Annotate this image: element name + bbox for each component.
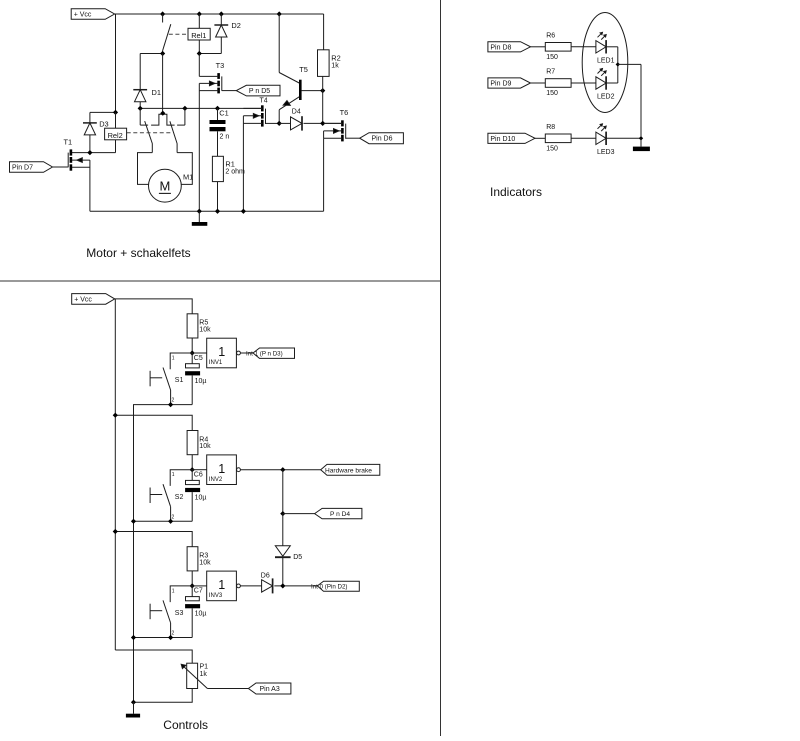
- svg-text:10k: 10k: [199, 443, 211, 450]
- motor loop right wire: [177, 153, 192, 185]
- wire D3 top to Rel2 node: [90, 111, 116, 113]
- node junction P1 bottom rail: [131, 700, 136, 705]
- wire T6 source down to ground rail corner: [323, 138, 325, 211]
- svg-text:T3: T3: [216, 61, 225, 70]
- wire D4 to T6 drain node: [304, 122, 342, 124]
- wire T3 source down to ground rail: [198, 91, 200, 212]
- relay coil Rel1: [188, 28, 210, 40]
- diode D1: [139, 54, 141, 90]
- node junction brake/PinD4/D5: [280, 467, 285, 472]
- wire Pin D7 to T1 gate: [53, 166, 69, 168]
- wire T1 drain row: [72, 152, 116, 154]
- pin flag Pin D5: [236, 85, 280, 96]
- svg-text:INV1: INV1: [209, 360, 223, 366]
- wire mid rail (D1 to T4 drain): [140, 107, 261, 109]
- wire top rail +Vcc: [115, 13, 324, 15]
- svg-text:P n D4: P n D4: [330, 511, 350, 518]
- wire T4 gate to D4 node: [266, 122, 280, 124]
- svg-text:2: 2: [172, 514, 175, 520]
- svg-text:Controls: Controls: [163, 718, 208, 732]
- node junction R3/C7/S3/gate input: [190, 583, 195, 588]
- svg-text:S3: S3: [175, 610, 184, 617]
- wire switch S1 bottom row: [140, 404, 192, 406]
- wire D2 anode to node: [199, 53, 221, 55]
- svg-text:D4: D4: [292, 109, 301, 116]
- svg-text:P n D5: P n D5: [249, 88, 270, 95]
- wire Pin D10 to R8: [535, 137, 545, 139]
- node junction T4 source bottom: [241, 209, 246, 214]
- svg-text:1: 1: [218, 345, 225, 359]
- svg-text:Pin A3: Pin A3: [260, 686, 280, 693]
- wire +Vcc rail corner to P1: [115, 650, 192, 663]
- wire R8 to LED3: [571, 137, 596, 139]
- svg-text:Pin D6: Pin D6: [372, 136, 393, 143]
- wire T5 emitter with arrow: [279, 97, 299, 110]
- wire R3 to node: [191, 571, 193, 586]
- node junction ground stem: [197, 209, 202, 214]
- svg-text:C5: C5: [194, 355, 203, 362]
- wire switch S3 bottom row: [134, 637, 193, 639]
- svg-text:1: 1: [218, 462, 225, 476]
- wire switch node down to Rel2 contact staple: [162, 54, 164, 114]
- wire R1 to ground rail: [217, 182, 219, 212]
- node junction Rel1/D2/T3-drain: [197, 51, 202, 56]
- inverter gate INV2: [207, 455, 237, 485]
- wire D5 to Int0 node: [282, 558, 284, 586]
- pin flag Pin D4: [315, 508, 362, 518]
- relay coil Rel2: [105, 128, 127, 140]
- svg-text:Int 1 (P n D3): Int 1 (P n D3): [246, 351, 283, 358]
- wire to Pin D4 flag: [283, 513, 315, 515]
- resistor R5: [187, 314, 198, 338]
- svg-text:Indicators: Indicators: [490, 185, 542, 199]
- svg-text:C7: C7: [194, 588, 203, 595]
- node junction Rel2 coil top: [113, 110, 118, 115]
- potentiometer P1: [187, 663, 198, 688]
- wire R6 to LED1: [571, 46, 596, 48]
- svg-text:P1: P1: [200, 664, 209, 671]
- ground symbol (indicators): [633, 147, 650, 152]
- svg-text:+ Vcc: + Vcc: [74, 296, 92, 303]
- power flag + Vcc (controls): [72, 294, 115, 305]
- wire R2 bottom to base node: [322, 76, 324, 123]
- wire LED1 cathode to common: [606, 46, 617, 48]
- svg-text:10µ: 10µ: [195, 495, 207, 502]
- wire node to switch S1 top: [170, 353, 192, 369]
- wire common to ground branch: [618, 63, 641, 65]
- pin flag Pin D9: [488, 78, 531, 88]
- node junction mid rail at C1: [215, 106, 220, 111]
- inverter gate INV3: [207, 571, 237, 601]
- svg-text:LED3: LED3: [597, 149, 615, 156]
- svg-text:D5: D5: [293, 554, 302, 561]
- svg-text:LED1: LED1: [597, 57, 615, 64]
- inverter INV2 output bubble: [237, 468, 241, 472]
- diode D4: [279, 122, 290, 124]
- wire bottom ground rail (motor section): [90, 210, 324, 212]
- wire T3 gate: [222, 90, 237, 92]
- svg-text:+ Vcc: + Vcc: [74, 12, 92, 19]
- relay contact Rel1 (switch arm): [162, 14, 164, 23]
- node junction top rail at Rel1 coil: [197, 11, 202, 16]
- switch S1 actuator: [149, 371, 151, 387]
- svg-text:R1: R1: [225, 160, 234, 169]
- svg-text:T4: T4: [260, 98, 268, 105]
- resistor R6: [545, 43, 571, 52]
- wire +Vcc rail to R4 feed: [115, 415, 192, 430]
- svg-text:2: 2: [172, 398, 175, 404]
- relay contact Rel2 staple: [151, 114, 175, 125]
- node junction S3 bottom: [168, 635, 173, 640]
- relay contact Rel2 right terminal: [184, 108, 186, 125]
- pin flag Pin D10: [488, 133, 535, 143]
- wire INV3 output to D6: [240, 585, 261, 587]
- divider vertical: [440, 0, 442, 736]
- pin flag Pin A3: [248, 683, 291, 694]
- node junction R1 bottom: [215, 209, 220, 214]
- led LED3 emission arrows: [598, 124, 603, 129]
- node junction ground rail S3 row: [131, 635, 136, 640]
- node junction +Vcc rail R4 feed: [113, 413, 118, 418]
- dashed link Rel1 contact to coil: [169, 33, 188, 35]
- wire Rel1 coil vertical: [198, 14, 200, 28]
- svg-text:T6: T6: [340, 108, 349, 117]
- wire T5 base to R2 node: [301, 90, 323, 92]
- wire node to D1 branch: [140, 53, 162, 55]
- svg-text:150: 150: [546, 146, 558, 153]
- led LED2: [596, 77, 606, 89]
- svg-text:10k: 10k: [199, 559, 211, 566]
- wire node down to Pin D4: [282, 470, 284, 514]
- resistor R8: [545, 134, 571, 143]
- wire node to INV2 input: [192, 469, 207, 471]
- led LED3: [596, 132, 606, 144]
- led LED1 emission arrows: [598, 32, 603, 37]
- wire indicator ground drop: [640, 64, 642, 146]
- resistor R1: [212, 156, 223, 181]
- wire node to switch S3 top: [170, 586, 192, 602]
- svg-text:R2: R2: [331, 54, 340, 63]
- node junction D4/R2/T6 drain: [320, 121, 325, 126]
- switch S2 actuator: [149, 488, 151, 504]
- svg-text:1k: 1k: [200, 671, 208, 678]
- svg-text:Motor + schakelfets: Motor + schakelfets: [86, 246, 190, 260]
- node junction D3/T1 drain: [87, 150, 92, 155]
- wire R4 to node: [191, 455, 193, 470]
- svg-text:1: 1: [172, 472, 175, 478]
- inverter INV3 output bubble: [237, 584, 241, 588]
- wire +Vcc to R5: [115, 299, 193, 314]
- wire T5 collector: [278, 14, 280, 73]
- svg-text:Pin D10: Pin D10: [490, 136, 515, 143]
- svg-text:C6: C6: [194, 472, 203, 479]
- svg-text:Pin D7: Pin D7: [12, 165, 33, 172]
- node junction D5/D6/Int0: [280, 583, 285, 588]
- switch S2: [163, 484, 171, 507]
- diode D6: [262, 580, 273, 592]
- wire T4 source down to ground rail: [242, 123, 244, 211]
- inverter INV1 output bubble: [237, 351, 241, 355]
- svg-text:INV2: INV2: [209, 477, 223, 483]
- ellipse around LED1 LED2: [582, 13, 628, 113]
- wire R7 to LED2: [571, 82, 596, 84]
- svg-text:C1: C1: [219, 108, 228, 117]
- svg-text:1: 1: [172, 588, 175, 594]
- dashed link Rel2 coil to contacts: [127, 132, 172, 134]
- svg-text:Pin D9: Pin D9: [490, 81, 511, 88]
- svg-text:150: 150: [546, 54, 558, 61]
- pin flag Hardware brake: [321, 464, 380, 475]
- node junction top rail at D2: [219, 11, 224, 16]
- node junction S2 bottom: [168, 519, 173, 524]
- node junction D1 bottom: [138, 106, 143, 111]
- switch S1: [163, 368, 171, 391]
- svg-text:S1: S1: [175, 377, 184, 384]
- svg-text:R8: R8: [546, 124, 555, 131]
- svg-text:D2: D2: [231, 21, 240, 30]
- divider horizontal: [0, 280, 441, 282]
- led LED1: [596, 41, 606, 53]
- wire +Vcc rail to R3 feed: [115, 532, 192, 547]
- node junction mid rail right contact: [182, 106, 187, 111]
- relay contact Rel2 left terminal: [139, 108, 141, 125]
- ground symbol (motor section): [198, 211, 200, 222]
- svg-text:1k: 1k: [331, 63, 339, 70]
- node junction T4 gate / T5 emitter / D4: [277, 121, 282, 126]
- svg-text:2 n: 2 n: [220, 134, 230, 141]
- wire node to INV1 input: [192, 352, 207, 354]
- diode D2: [220, 14, 222, 25]
- svg-text:Pin D8: Pin D8: [490, 44, 511, 51]
- wire T6 gate: [346, 137, 360, 139]
- led LED2 emission arrows: [598, 69, 603, 74]
- relay contact Rel2 arm 2: [170, 121, 177, 143]
- svg-text:150: 150: [546, 90, 558, 97]
- wire LED1 to LED2 cathodes: [617, 47, 619, 83]
- svg-text:2 ohm: 2 ohm: [225, 169, 245, 176]
- svg-text:10µ: 10µ: [195, 611, 207, 618]
- inverter gate INV1: [207, 338, 237, 368]
- transistor T4 (n-mosfet): [261, 105, 264, 111]
- svg-text:LED2: LED2: [597, 94, 615, 101]
- svg-text:T1: T1: [64, 138, 73, 147]
- wire P1 wiper to Pin A3: [207, 688, 248, 690]
- wire node to switch S2 top: [170, 470, 192, 486]
- wire LED2 cathode: [606, 82, 617, 84]
- wire Pin D4 node to D5: [282, 514, 284, 546]
- node junction +Vcc rail R3 feed: [113, 529, 118, 534]
- resistor R2: [323, 14, 325, 50]
- node junction top rail at T5 collector: [277, 11, 282, 16]
- svg-text:2: 2: [172, 631, 175, 637]
- svg-text:M1: M1: [183, 173, 193, 182]
- power flag + Vcc (motor section): [71, 9, 114, 20]
- pin flag Pin D6: [360, 133, 404, 144]
- diode D5: [275, 546, 290, 556]
- pin flag Int 1 (Pin D3): [253, 348, 295, 358]
- node junction switch bottom: [160, 51, 165, 56]
- resistor R4: [187, 431, 198, 455]
- svg-text:M: M: [159, 179, 170, 194]
- resistor R7: [545, 79, 571, 88]
- svg-text:10µ: 10µ: [195, 378, 207, 385]
- node junction LED3/ground drop: [639, 136, 643, 140]
- motor M1: [149, 169, 182, 202]
- node junction ground rail S2 row: [131, 519, 136, 524]
- node junction S1 bottom: [168, 402, 173, 407]
- svg-text:R7: R7: [546, 69, 555, 76]
- motor loop left wire: [138, 153, 153, 185]
- wire P1 bottom to ground rail: [134, 689, 193, 703]
- svg-text:1: 1: [218, 578, 225, 592]
- wire LED3 cathode to ground drop: [606, 137, 641, 139]
- svg-text:R6: R6: [546, 32, 555, 39]
- node junction base/R2: [320, 88, 325, 93]
- node junction R5/C5/S1/gate input: [190, 350, 195, 355]
- wire ground rail (controls): [134, 405, 141, 703]
- wire INV1 output: [240, 352, 253, 354]
- node junction R4/C6/S2/gate input: [190, 467, 195, 472]
- node junction top rail at Rel1 switch: [160, 11, 165, 16]
- wire R5 to node: [191, 338, 193, 353]
- pin flag Pin D7: [10, 162, 53, 173]
- svg-text:1: 1: [172, 355, 175, 361]
- svg-text:D1: D1: [152, 88, 161, 97]
- relay contact Rel2 arm 1: [145, 121, 153, 143]
- svg-text:Int 0 (Pin D2): Int 0 (Pin D2): [311, 583, 347, 590]
- diode D3: [89, 112, 91, 123]
- wire Pin D8 to R6: [531, 46, 546, 48]
- resistor R3: [187, 547, 198, 571]
- switch S3: [163, 600, 171, 623]
- svg-text:D3: D3: [99, 119, 108, 128]
- svg-text:Rel1: Rel1: [191, 31, 206, 40]
- switch S3 actuator: [149, 604, 151, 620]
- wire Pin D9 to R7: [531, 82, 546, 84]
- svg-text:Hardware brake: Hardware brake: [325, 467, 372, 474]
- wire +Vcc rail down: [114, 299, 116, 650]
- wire node to INV3 input: [192, 585, 207, 587]
- wire D6 to Int0 node: [274, 585, 317, 587]
- node junction indicator common: [616, 62, 620, 66]
- wire +Vcc down to Rel2 node: [115, 14, 117, 112]
- svg-text:D6: D6: [261, 573, 270, 580]
- svg-text:Rel2: Rel2: [108, 131, 123, 140]
- ground symbol (controls): [133, 702, 135, 714]
- wire T3 drain from node: [198, 54, 200, 77]
- svg-text:INV3: INV3: [209, 593, 223, 599]
- svg-text:10k: 10k: [199, 326, 211, 333]
- svg-text:S2: S2: [175, 494, 184, 501]
- node junction staple top: [160, 111, 165, 116]
- pin flag Pin D8: [488, 42, 531, 52]
- wire switch S2 bottom row: [134, 520, 193, 522]
- svg-text:T5: T5: [299, 65, 308, 74]
- wire INV2 output to Hardware brake: [240, 469, 320, 471]
- node junction Pin D4: [280, 511, 285, 516]
- wire Rel2 coil vertical: [115, 112, 117, 128]
- pin flag Int 0 (Pin D2): [317, 581, 359, 591]
